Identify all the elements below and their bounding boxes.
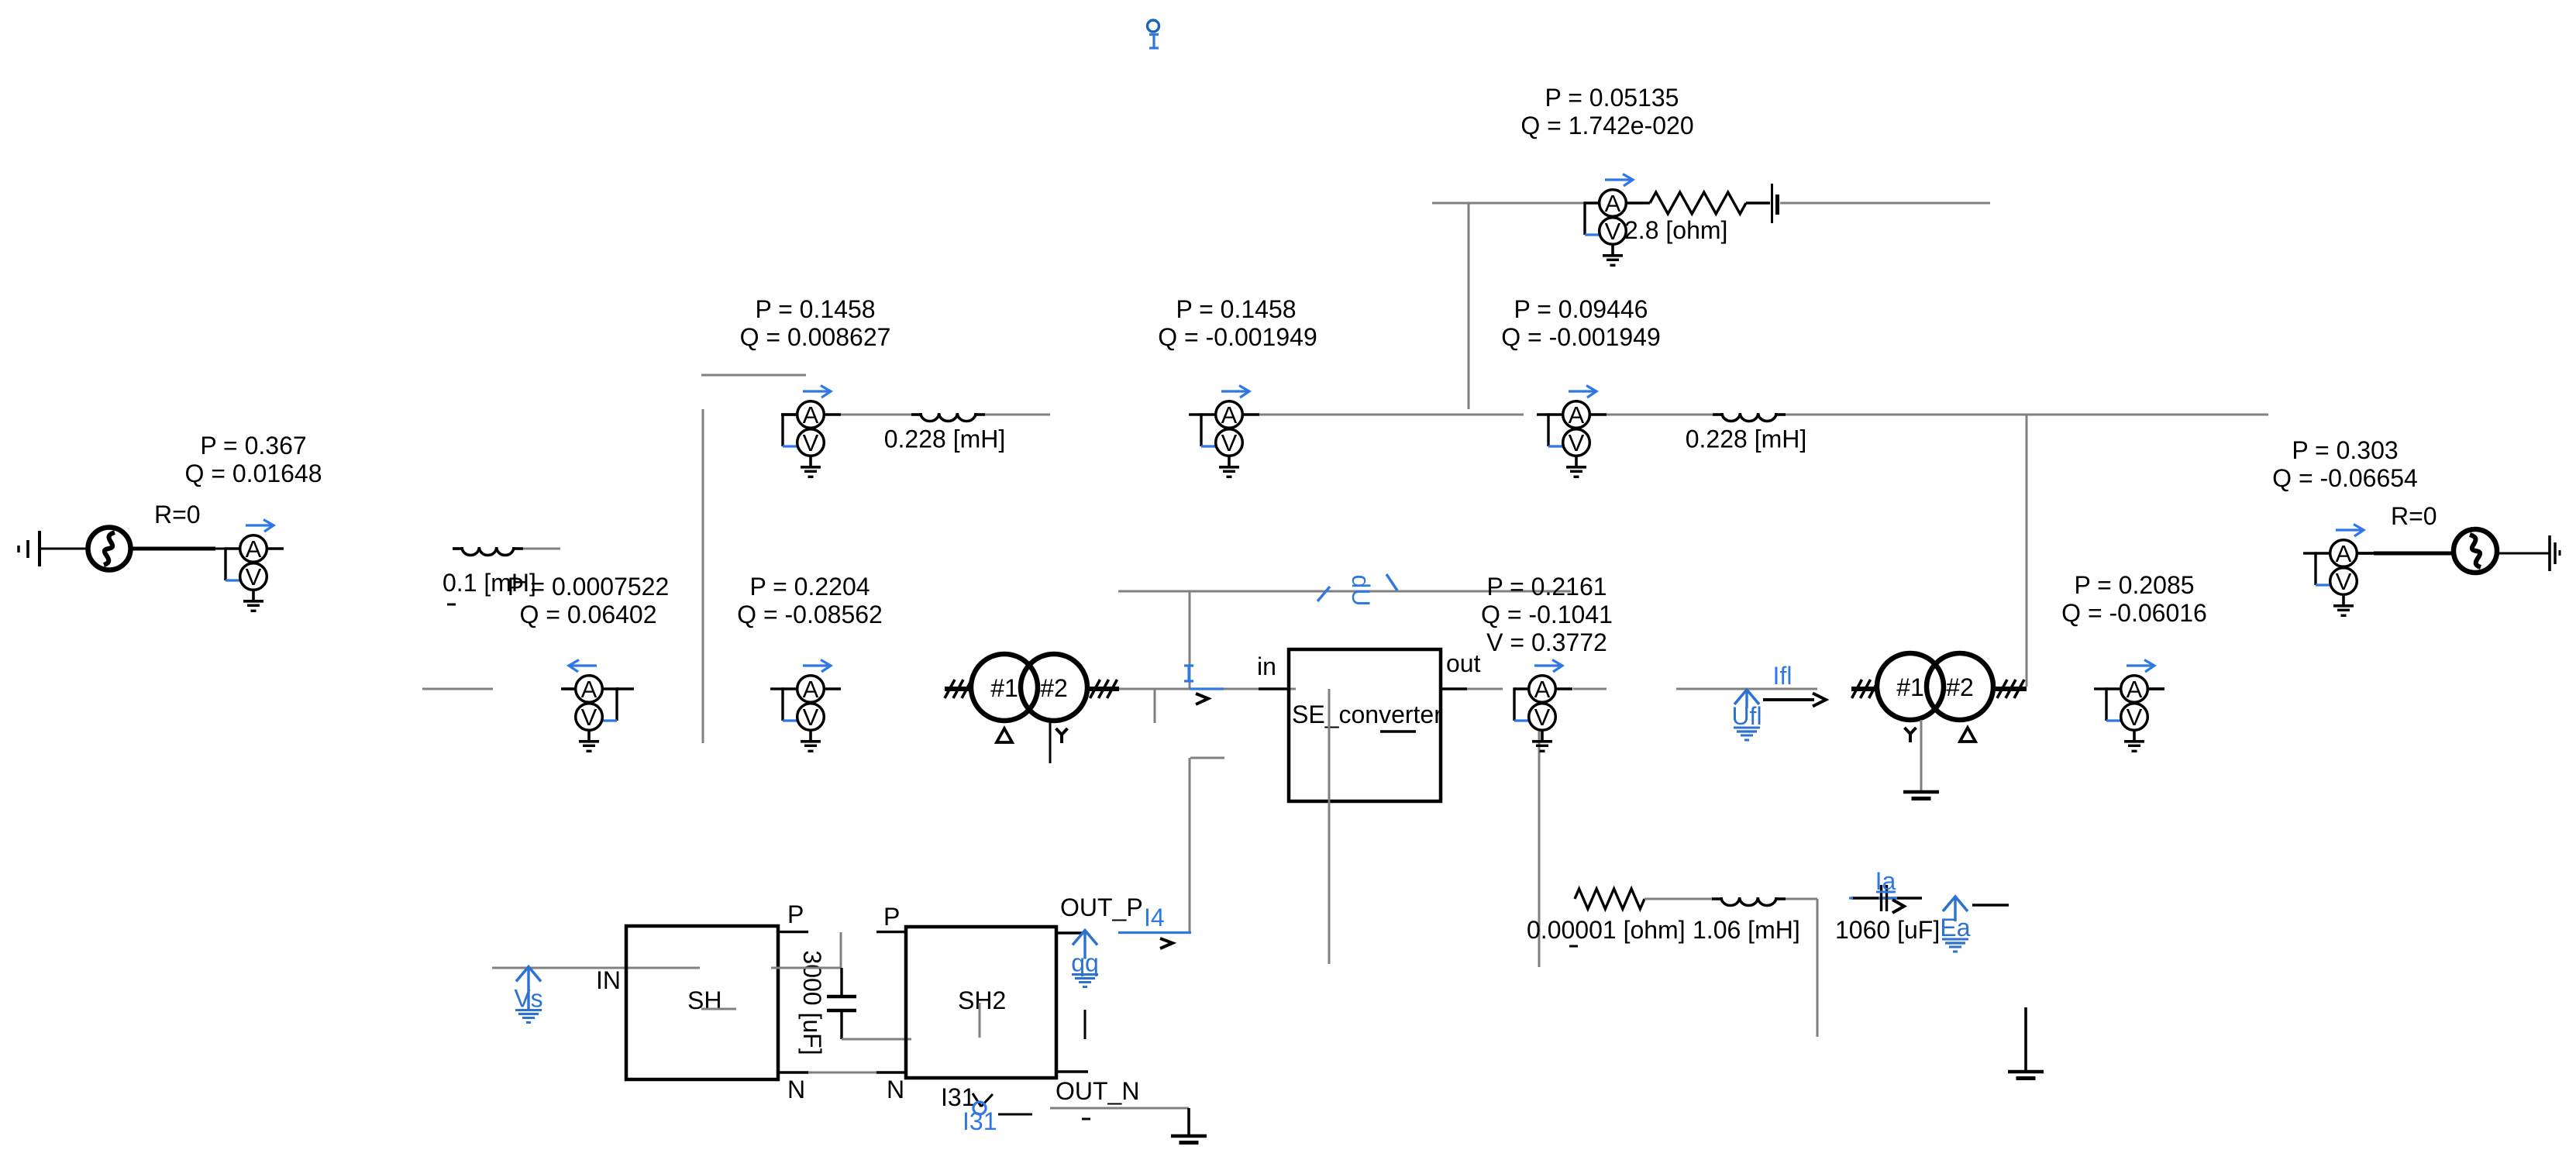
ammeter/voltmeter pair (top branch) [1585, 174, 1643, 266]
svg-text:V: V [1605, 218, 1621, 245]
svg-text:A: A [803, 676, 819, 703]
ammeter/voltmeter pair (row1 right) [1548, 386, 1607, 477]
svg-text:SH2: SH2 [958, 986, 1006, 1014]
wire OUT_N to ground [1050, 1108, 1189, 1119]
wire row1 meter to inductor [841, 414, 911, 416]
svg-text:A: A [1605, 190, 1621, 217]
source annotation Vs (blue) [514, 967, 542, 1023]
svg-text:Q = 0.01648: Q = 0.01648 [184, 460, 322, 487]
svg-text:I31: I31 [963, 1107, 997, 1135]
wire AC source to ground (right) [2497, 553, 2550, 555]
svg-text:P = 0.303: P = 0.303 [2292, 436, 2398, 464]
SH block [626, 926, 778, 1079]
label R=0 (left) [154, 501, 201, 528]
svg-text:V: V [246, 563, 262, 590]
SH2 block [906, 927, 1056, 1078]
wire below T1 secondary (Y neutral) [1049, 721, 1052, 763]
svg-text:Q = 0.06402: Q = 0.06402 [519, 601, 656, 628]
voltmeter slash right (dU) [1386, 574, 1397, 590]
svg-text:V: V [1221, 429, 1238, 456]
capacitor 1060 uF with Ia tap [1849, 885, 1922, 913]
wire vertical mid-left (x=907) [702, 409, 704, 743]
svg-text:SE_converter: SE_converter [1292, 701, 1442, 728]
resistor 0.00001 ohm [1575, 889, 1644, 909]
svg-text:V: V [803, 429, 819, 456]
wire stub into SE_converter [1259, 687, 1289, 690]
wire stub left of row1 meter [781, 413, 797, 415]
svg-text:Q = -0.08562: Q = -0.08562 [737, 601, 883, 628]
wire short stub below main row (x=1490) [1154, 689, 1156, 723]
inductor 0.228 mH (left) [911, 413, 985, 422]
label 0.00001 [ohm] [1527, 916, 1686, 946]
ammeter/voltmeter pair (converter out) [1514, 660, 1572, 752]
inductor 0.228 mH (right) [1713, 413, 1786, 422]
ground at OUT_N [1171, 1108, 1207, 1143]
wire stub left of 0.2204 meter [770, 687, 783, 690]
svg-text:A: A [1221, 401, 1238, 429]
svg-text:R=0: R=0 [154, 501, 201, 528]
terminal stub P of SH [778, 931, 808, 933]
wire stub left of reversed meter [563, 687, 575, 690]
label P/Q of 0.228mH branch (left) [740, 295, 891, 351]
svg-text:0.00001 [ohm]: 0.00001 [ohm] [1527, 916, 1686, 944]
label N (SH2) [887, 1076, 904, 1103]
svg-text:A: A [246, 535, 262, 563]
wire elbow below node I [1190, 758, 1224, 933]
svg-text:Q = -0.06654: Q = -0.06654 [2272, 464, 2418, 492]
svg-text:P = 0.1458: P = 0.1458 [755, 295, 875, 323]
resistor 2.8 ohm [1650, 192, 1746, 214]
label 2.8 [ohm] [1624, 216, 1727, 244]
T1 right terminal (3-phase hash) [1087, 680, 1119, 698]
ground (right source, rotated) [2550, 535, 2560, 571]
svg-text:in: in [1257, 652, 1276, 680]
label I4 (blue) [1144, 904, 1165, 931]
label OUT_P [1060, 893, 1143, 921]
wire row1 middle meter to right [1259, 414, 1524, 416]
wire T1 to node I [1119, 688, 1296, 690]
wire resistor to battery (top) [1746, 201, 1770, 204]
label out [1446, 649, 1481, 677]
label 3000 [uF] (rotated) [798, 950, 826, 1055]
wire vertical from out meter down (x=1986) [1538, 689, 1541, 967]
wire dU row horizontal (y=763) [1118, 590, 1571, 593]
capacitor 3000 uF [827, 968, 856, 1039]
wire row1 right meter to inductor [1607, 414, 1713, 416]
svg-text:SH: SH [687, 986, 721, 1014]
label P/Q of left source [184, 432, 322, 487]
signal tap Ufl (blue arrow + ground) [1731, 690, 1762, 740]
label P/Q/V of converter output [1481, 573, 1613, 656]
wire meter to resistor (top) [1643, 201, 1650, 204]
svg-text:Ufl: Ufl [1731, 702, 1762, 730]
label P (SH2) [883, 903, 900, 931]
svg-text:Q = 0.008627: Q = 0.008627 [740, 323, 891, 351]
svg-text:P = 0.05135: P = 0.05135 [1545, 84, 1679, 112]
label Ia (blue, underlined) [1875, 867, 1896, 895]
svg-text:P = 0.367: P = 0.367 [200, 432, 306, 460]
wire capacitor bottom to SH2 [842, 1038, 911, 1041]
svg-text:Ifl: Ifl [1773, 662, 1793, 690]
terminal stub N of SH [778, 1071, 808, 1073]
wire stub left of right-source meter [2303, 552, 2316, 554]
label IN [596, 966, 621, 994]
svg-text:V: V [2127, 704, 2143, 731]
svg-text:IN: IN [596, 966, 621, 994]
output channel icon I (top) [1148, 20, 1159, 48]
svg-text:N: N [887, 1076, 904, 1103]
ammeter/voltmeter pair (right source) [2316, 525, 2374, 616]
inductor 0.1 mH lead-in [453, 547, 460, 549]
svg-text:2.8 [ohm]: 2.8 [ohm] [1624, 216, 1727, 244]
svg-text:Q = -0.1041: Q = -0.1041 [1481, 601, 1613, 628]
label P/Q row1 middle [1158, 295, 1317, 351]
current direction arrow Ifl [1763, 694, 1826, 707]
svg-text:P = 0.1458: P = 0.1458 [1176, 295, 1296, 323]
wire IN (Vs row) [492, 967, 700, 969]
wire out stub [1441, 687, 1503, 690]
wire stub left of right meter [2094, 687, 2106, 690]
inductor 1.06 mH [1712, 897, 1786, 906]
svg-text:N: N [787, 1076, 805, 1103]
T1 left terminal (3-phase hash) [945, 680, 972, 698]
label P/Q right source [2272, 436, 2418, 492]
wire short segment above-left (y=484) [701, 374, 806, 377]
svg-text:A: A [2127, 676, 2143, 703]
svg-text:#1: #1 [1896, 673, 1924, 701]
svg-text:A: A [803, 401, 819, 429]
wire vertical black below qq [1084, 1010, 1087, 1039]
svg-text:P = 0.2204: P = 0.2204 [749, 573, 870, 601]
svg-text:#1: #1 [990, 674, 1018, 702]
label OUT_N [1056, 1077, 1139, 1105]
svg-text:V: V [1569, 429, 1585, 456]
svg-text:Q = -0.001949: Q = -0.001949 [1158, 323, 1317, 351]
svg-text:V = 0.3772: V = 0.3772 [1486, 628, 1607, 656]
svg-text:A: A [581, 676, 598, 703]
wire thick source to meter [131, 547, 226, 551]
T2 left terminal (3-phase hash) [1851, 680, 1879, 698]
svg-text:Ea: Ea [1940, 914, 1970, 942]
terminal stub N of SH2 [876, 1071, 906, 1073]
svg-text:dU: dU [1347, 575, 1375, 607]
label in [1257, 652, 1276, 680]
label R=0 (right) [2391, 502, 2437, 530]
svg-text:qq: qq [1071, 949, 1099, 977]
svg-text:0.228 [mH]: 0.228 [mH] [884, 425, 1006, 453]
label 0.228 [mH] (right) [1686, 425, 1807, 453]
wire after 1.06mH + vertical drop [1786, 899, 1817, 1037]
svg-text:R=0: R=0 [2391, 502, 2437, 530]
wire vertical drop from top row [1468, 203, 1470, 409]
inductor 0.1 mH [453, 547, 523, 556]
svg-text:P = 0.2161: P = 0.2161 [1486, 573, 1607, 601]
wire vertical node I (x=1535, dU row to main row) [1189, 591, 1191, 689]
AC source circle (left) [88, 528, 131, 570]
wire stub left of row1 middle meter [1189, 413, 1201, 415]
label P/Q 0.2085 [2061, 571, 2207, 627]
wire stub left of row1 right meter [1537, 413, 1548, 415]
ammeter/voltmeter pair (reversed, P=0.0007522) [561, 660, 619, 752]
svg-text:P = 0.0007522: P = 0.0007522 [508, 573, 670, 601]
svg-text:P = 0.09446: P = 0.09446 [1514, 295, 1648, 323]
voltmeter slash left (dU) [1317, 587, 1330, 601]
svg-text:V: V [581, 704, 598, 731]
source annotation Ea (blue) [1940, 897, 1970, 952]
label P/Q row1 right [1501, 295, 1660, 351]
wire vertical row1 to transformer 2 [2026, 415, 2028, 687]
svg-text:P: P [787, 900, 804, 928]
wire top row right segment [1780, 202, 1990, 205]
ground below T2 [1903, 792, 1939, 799]
wire after 0.1mH inductor [523, 548, 560, 550]
wire right of reversed meter [617, 687, 634, 690]
ammeter/voltmeter pair (P=0.2085) [2106, 660, 2164, 752]
svg-text:out: out [1446, 649, 1481, 677]
svg-text:A: A [1534, 676, 1551, 703]
svg-text:0.228 [mH]: 0.228 [mH] [1686, 425, 1807, 453]
label 0.1 [mH] [443, 569, 536, 604]
svg-text:Q = 1.742e-020: Q = 1.742e-020 [1520, 112, 1693, 139]
label N (SH) [787, 1076, 805, 1103]
wire resistor to inductor (bottom) [1644, 898, 1712, 900]
label dU (rotated) [1347, 575, 1375, 607]
transformer T1 (delta-wye) [971, 654, 1087, 743]
svg-text:P = 0.2085: P = 0.2085 [2074, 571, 2194, 599]
label P (SH output) [787, 900, 804, 928]
svg-text:I4: I4 [1144, 904, 1165, 931]
svg-text:#2: #2 [1040, 674, 1068, 702]
wire row1 after inductor [985, 414, 1050, 416]
terminal stub P of SH2 [876, 931, 906, 933]
svg-text:Q = -0.06016: Q = -0.06016 [2061, 599, 2207, 627]
transformer T2 (wye-delta) [1877, 653, 1993, 742]
label 1060 [uF] [1835, 916, 1940, 944]
label P/Q 0.2204 [737, 573, 883, 628]
wire Ufl segment [1676, 688, 1817, 690]
wire thick meter to AC source (right) [2357, 552, 2453, 554]
wire right of out meter [1573, 688, 1607, 690]
svg-text:P: P [883, 903, 900, 931]
label 1.06 [mH] [1693, 916, 1800, 944]
svg-text:3000 [uF]: 3000 [uF] [798, 950, 826, 1055]
svg-text:OUT_N: OUT_N [1056, 1077, 1139, 1105]
terminal stub OUT_P [1056, 931, 1088, 934]
wire row1 long right segment [1786, 414, 2268, 416]
label Ifl (blue) [1773, 662, 1793, 690]
label 0.228 [mH] (left) [884, 425, 1006, 453]
wire main row far left segment [422, 688, 493, 690]
label P/Q of 0.1mH branch [508, 573, 670, 628]
wire top row left segment [1432, 202, 1585, 205]
svg-text:OUT_P: OUT_P [1060, 893, 1143, 921]
svg-text:1060 [uF]: 1060 [uF] [1835, 916, 1940, 944]
terminal stub OUT_N [1056, 1070, 1088, 1072]
svg-text:Vs: Vs [514, 985, 542, 1013]
ammeter/voltmeter pair (left source) [226, 520, 284, 611]
wire stub right of Ea [1972, 904, 2009, 906]
label P/Q of top resistor branch [1520, 84, 1693, 139]
svg-text:A: A [1569, 401, 1585, 429]
wire below T2 primary (Y neutral) [1920, 720, 1923, 792]
svg-text:A: A [2336, 540, 2352, 567]
svg-text:#2: #2 [1946, 673, 1974, 701]
wire dash right of right meter [2148, 687, 2164, 690]
output channel icon I31 [941, 1083, 1032, 1135]
SE_converter block [1289, 649, 1442, 801]
ammeter/voltmeter pair (row1 middle) [1201, 386, 1259, 477]
svg-text:V: V [1534, 704, 1551, 731]
svg-text:V: V [2336, 568, 2352, 595]
T2 right terminal (3-phase hash) [1994, 680, 2027, 698]
AC source circle (right) [2454, 529, 2497, 573]
wire I4 (blue) with arrow [1118, 933, 1191, 949]
ground (left source, rotated) [19, 531, 88, 566]
svg-text:V: V [803, 704, 819, 731]
signal annotation qq (blue) [1071, 931, 1099, 987]
ammeter/voltmeter pair (row1 left) [783, 386, 841, 477]
battery / source symbol (top right) [1772, 184, 1778, 223]
wire horizontal at capacitor (inside SH) [771, 967, 841, 969]
wire vertical inside SE_converter [1328, 689, 1331, 964]
ground (bottom right) [2008, 1007, 2044, 1079]
wire N to N [808, 1072, 876, 1074]
ammeter/voltmeter pair (P=0.2204) [783, 660, 841, 752]
wire vertical to capacitor top [840, 932, 842, 968]
node label I (blue) with wire tap [1184, 666, 1224, 704]
svg-text:Q = -0.001949: Q = -0.001949 [1501, 323, 1660, 351]
svg-text:1.06 [mH]: 1.06 [mH] [1693, 916, 1800, 944]
